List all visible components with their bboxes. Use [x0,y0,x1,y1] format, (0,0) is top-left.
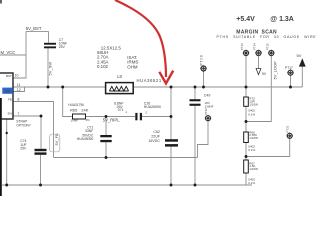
node main/PT09 junction [202,86,205,89]
value label L8 specs [97,45,138,69]
selection outline around 5V_FB label [50,134,60,152]
svg-text:5V_RIPL: 5V_RIPL [103,117,120,122]
svg-text:PT15: PT15 [265,43,269,50]
svg-text:HUA31796: HUA31796 [68,103,84,107]
test point PT15 [268,50,275,57]
svg-text:22UF: 22UF [151,135,161,139]
wire jog to test point PT32 [198,121,209,158]
value label C49 [204,94,214,109]
wire pin 12 stub [13,87,25,92]
svg-text:0.1%: 0.1% [248,181,255,185]
svg-text:OHM: OHM [127,64,138,69]
wire R67 bottom to rail [245,173,247,185]
inductor L8 [106,83,134,94]
svg-text:+5.4V: +5.4V [236,16,255,23]
node pin7/C74 junction [40,115,43,118]
node main/C49 junction [194,86,197,89]
svg-text:16VDC: 16VDC [148,139,160,143]
test point PT14 [255,50,262,57]
wire pin 8 FB to vertical [13,102,54,158]
svg-text:1/16W: 1/16W [249,136,258,140]
value label R66 [248,130,258,152]
svg-text:7: 7 [17,112,19,116]
node C71 top junction [105,115,108,118]
wire PT13 stub / R72 top [245,56,247,98]
wire margin loop vertical 5V_LOOP [246,56,271,122]
svg-text:PTHS SUITABLE FOR 30 GAUGE WIR: PTHS SUITABLE FOR 30 GAUGE WIRE [217,35,317,39]
red annotation arrow [115,0,166,77]
svg-text:1/16W: 1/16W [249,167,258,171]
label strap option [16,120,31,128]
svg-text:12: 12 [17,88,21,92]
op-amp U? buck regulator IC box [0,73,13,119]
resistor R65 [73,114,86,119]
wire C71 top lead [105,117,107,136]
svg-text:PT14: PT14 [253,43,257,50]
resistor R67 [244,160,249,173]
wire FB return horizontal [54,157,198,159]
wire BST vertical to pin 10 [13,31,26,78]
power flag 5V up arrow [299,58,306,66]
capacitor C74 [35,149,47,155]
svg-text:1/16W: 1/16W [249,102,258,106]
wire R72 to R66 [245,106,247,132]
wire C26 right lead [142,116,171,118]
svg-text:8: 8 [17,98,19,102]
node R66/R67 sense junction [245,155,248,158]
wire 5V power stub [301,67,303,88]
svg-text:07L: 07L [118,108,124,112]
wire R65 left lead from SW [63,87,73,117]
svg-text:OPTION?: OPTION? [16,123,31,127]
value label C26 [114,101,161,112]
node rail/IC ground [5,184,8,187]
svg-text:10: 10 [15,74,19,78]
svg-text:5V: 5V [262,72,267,76]
capacitor C49 [190,99,201,106]
pin SW highlight [2,88,13,94]
screenshot corner mark [0,0,2,4]
svg-text:C62: C62 [153,130,160,134]
svg-text:FB: FB [8,97,12,101]
svg-text:C49: C49 [204,94,211,98]
capacitor C62 [165,139,178,146]
node C71 bottom junction [105,156,108,159]
wire C62 top lead crossing branch [170,87,172,139]
svg-text:R65: R65 [70,108,78,113]
svg-text:1/4W: 1/4W [71,118,78,122]
heading +5.4V @ 1.3A [236,16,294,23]
svg-text:0.1%: 0.1% [248,148,255,152]
wire R65 right lead to C26 [86,116,136,118]
capacitor C71 [100,135,111,142]
node R65/SW junction [61,86,64,89]
node C7/SW junction [47,86,50,89]
node main/R72 junction [245,86,248,89]
svg-text:130NF: 130NF [205,104,214,108]
net arrow 5V down open triangle [256,69,261,75]
value label C7 [59,38,67,49]
wire M_VCC [0,54,26,56]
resistor R66 [244,132,249,143]
test point PT32 [205,115,212,122]
test point PT31 [286,132,293,139]
svg-text:PT31: PT31 [286,125,290,132]
wire R66 to R67 [245,143,247,161]
wire C74 top lead [40,116,42,149]
svg-text:5V_SW: 5V_SW [47,62,52,76]
svg-text:1%: 1% [85,118,90,122]
node rail/C74 [39,184,42,187]
wire ground rail [2,184,252,186]
wire PT14 stub to 5V arrow [258,56,260,69]
capacitor C7 [44,43,56,49]
svg-text:BST: BST [6,74,12,78]
node R72/R66 margin junction [245,120,248,123]
svg-text:11: 11 [17,83,21,87]
svg-text:PT32: PT32 [204,108,208,115]
wire C71 bottom lead [105,142,107,157]
test point PT13 [243,50,250,57]
svg-text:PT09: PT09 [200,55,204,66]
test point PT09 [200,65,207,72]
capacitor C26 [135,113,142,120]
svg-text:HUA26090: HUA26090 [144,105,161,109]
wire IC ground pin down [6,118,8,185]
screenshot left border [0,98,2,196]
wire SW net pins 11/12 to L8 [13,86,106,88]
wire C74 bottom lead to ground rail [40,155,42,185]
value label R67 [248,161,258,185]
svg-text:5V: 5V [297,53,302,58]
svg-text:5V_BST: 5V_BST [26,26,42,31]
wire C7 top lead [48,31,50,42]
svg-text:HUA45090: HUA45090 [77,137,94,141]
svg-text:5V_LOOP: 5V_LOOP [273,61,278,80]
svg-text:HUA36521: HUA36521 [137,78,162,83]
wire PT17 stub [290,76,292,88]
svg-text:M_VCC: M_VCC [1,50,16,55]
value label C71 [77,125,94,141]
wire PT09 stub [203,71,205,87]
wire 5V_BST horizontal [26,30,49,32]
wire pin 7 stub [13,115,41,117]
svg-text:25V: 25V [59,45,66,49]
node rail/C62 [170,184,173,187]
svg-text:25V: 25V [20,147,27,151]
svg-text:24K: 24K [81,108,88,113]
value label R65 [68,103,90,122]
svg-text:L8: L8 [117,74,122,79]
svg-text:@ 1.3A: @ 1.3A [270,16,294,23]
svg-text:PT13: PT13 [240,43,244,50]
wire C62 bottom lead [170,147,172,185]
node branch/C62 junction [170,115,173,118]
node IC ground pin [6,132,8,134]
node main/PT17 junction [289,86,292,89]
wire C49 bottom lead to rail [194,106,196,185]
wire C49 top lead [194,87,196,99]
svg-text:0.1%: 0.1% [248,112,255,116]
value label R72 [248,97,258,117]
wire C7 bottom lead to SW node [47,48,49,87]
node main/C62 junction [170,86,173,89]
wire margin sense to PT31 [246,138,290,156]
node rail/C49 [194,184,197,187]
svg-text:EN: EN [8,112,12,116]
svg-text:PT17: PT17 [285,66,293,70]
value label C74 [20,139,27,151]
resistor R72 [244,97,249,106]
value label C62 [148,130,160,143]
test point PT17 [287,69,294,76]
svg-text:SW: SW [5,90,11,94]
svg-text:5V_FB: 5V_FB [54,133,59,146]
wire 5V output main rail [134,86,302,88]
svg-text:0.102: 0.102 [97,64,109,69]
